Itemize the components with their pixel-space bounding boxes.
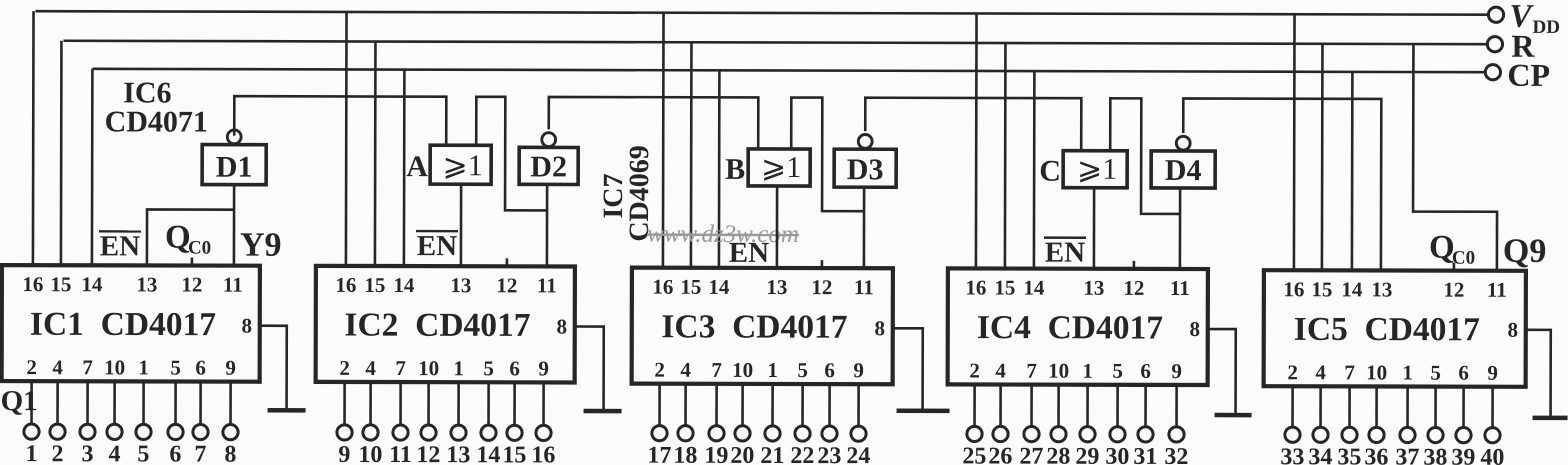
- bubble D1: [227, 130, 241, 144]
- wire IC1 pin8 to ground: [260, 326, 287, 411]
- wire gate B output to IC3 pin13: [776, 186, 779, 268]
- svg-text:⩾1: ⩾1: [761, 151, 801, 184]
- IC IC4 CD4017: [948, 268, 1208, 385]
- svg-text:10: 10: [358, 442, 382, 465]
- wire D3 bubble to gate C: [865, 98, 1081, 151]
- svg-text:IC2 CD4017: IC2 CD4017: [344, 307, 530, 344]
- svg-text:5: 5: [1430, 361, 1441, 385]
- svg-text:12: 12: [416, 442, 440, 465]
- wire VDD to IC4 pin16: [975, 13, 978, 268]
- labels IC3 terminal numbers: [647, 443, 870, 465]
- svg-text:16: 16: [22, 272, 43, 296]
- svg-text:16: 16: [965, 275, 986, 299]
- wire R to IC3 pin15: [690, 42, 693, 267]
- wire R rail to IC5 pin11: [1413, 44, 1498, 271]
- svg-text:13: 13: [1371, 277, 1392, 301]
- wire gate A output to IC2 pin13: [460, 184, 463, 266]
- svg-text:A: A: [406, 150, 428, 183]
- svg-text:1: 1: [138, 355, 149, 379]
- svg-text:C: C: [1039, 155, 1061, 188]
- svg-text:7: 7: [1026, 359, 1037, 383]
- wires IC5 outputs: [1293, 386, 1493, 427]
- wire gate B in2 to D3 output net: [791, 98, 864, 212]
- svg-text:13: 13: [446, 442, 470, 465]
- svg-text:CD4071: CD4071: [105, 105, 208, 138]
- wire IC3 pin12 stub: [821, 260, 824, 268]
- svg-text:15: 15: [364, 273, 385, 297]
- svg-text:14: 14: [708, 275, 730, 299]
- svg-text:14: 14: [1023, 276, 1045, 300]
- svg-text:19: 19: [704, 443, 728, 465]
- wire D1 output to IC1 pin11: [233, 185, 236, 266]
- svg-text:24: 24: [846, 443, 870, 465]
- inverter D1: [202, 145, 266, 185]
- wire D3 output to IC3 pin11: [863, 187, 866, 268]
- ground IC3: [897, 409, 950, 414]
- wire IC2 pin12 stub: [506, 258, 509, 266]
- svg-text:7: 7: [1344, 360, 1355, 384]
- svg-text:34: 34: [1308, 444, 1332, 465]
- ground IC2: [584, 409, 622, 414]
- labels IC5 terminal numbers: [1280, 444, 1504, 465]
- wire D2 output to IC2 pin11: [546, 184, 549, 266]
- wire R to IC5 pin15: [1321, 44, 1324, 270]
- terminals IC2 outputs: [337, 425, 551, 441]
- svg-text:1: 1: [25, 441, 37, 465]
- svg-text:4: 4: [365, 356, 376, 380]
- terminals IC1 outputs: [24, 424, 238, 440]
- svg-text:23: 23: [817, 443, 841, 465]
- svg-text:11: 11: [1170, 276, 1190, 300]
- svg-text:D1: D1: [216, 151, 253, 184]
- svg-text:11: 11: [1487, 278, 1507, 302]
- svg-text:32: 32: [1164, 444, 1188, 465]
- wire R to IC1 pin15: [60, 41, 63, 265]
- bubble D2: [542, 133, 556, 147]
- svg-text:4: 4: [1315, 360, 1326, 384]
- labels IC2 bottom pins: [339, 356, 549, 381]
- svg-text:6: 6: [169, 441, 181, 465]
- wire VDD to IC1 pin16: [32, 11, 35, 265]
- svg-text:⩾1: ⩾1: [1077, 153, 1117, 186]
- terminals IC3 outputs: [652, 426, 866, 442]
- svg-text:15: 15: [1311, 277, 1332, 301]
- svg-text:15: 15: [680, 275, 701, 299]
- svg-text:15: 15: [994, 276, 1015, 300]
- svg-text:8: 8: [1507, 318, 1518, 342]
- wire IC4 pin12 stub: [1133, 261, 1136, 269]
- svg-text:6: 6: [1140, 359, 1151, 383]
- svg-text:Q: Q: [165, 219, 191, 255]
- svg-text:39: 39: [1451, 445, 1475, 465]
- svg-text:D3: D3: [847, 153, 884, 186]
- terminal VDD: [1488, 7, 1503, 22]
- svg-text:5: 5: [137, 441, 149, 465]
- labels IC5 bottom pins: [1287, 360, 1498, 385]
- ground IC5: [1533, 416, 1568, 421]
- labels IC2 top pins: [335, 273, 556, 298]
- svg-text:4: 4: [680, 358, 691, 382]
- svg-text:C0: C0: [188, 238, 211, 259]
- svg-text:7: 7: [82, 355, 93, 379]
- svg-text:IC5 CD4017: IC5 CD4017: [1294, 311, 1480, 348]
- svg-text:14: 14: [81, 272, 103, 296]
- wire V_DD rail: [36, 11, 1488, 15]
- svg-text:3: 3: [81, 441, 93, 465]
- inverter D3: [834, 149, 896, 187]
- svg-text:1: 1: [1082, 359, 1093, 383]
- svg-text:10: 10: [1048, 359, 1069, 383]
- wire D1 bubble to gate A: [234, 96, 446, 145]
- bubble D4: [1176, 136, 1190, 150]
- svg-text:10: 10: [1366, 360, 1387, 384]
- ground IC1: [268, 408, 306, 413]
- svg-text:13: 13: [450, 273, 471, 297]
- svg-text:9: 9: [225, 356, 236, 380]
- wire CP to IC4 pin14: [1033, 71, 1036, 268]
- wire VDD to IC2 pin16: [345, 12, 348, 266]
- svg-text:9: 9: [338, 442, 350, 465]
- labels IC2 terminal numbers: [338, 442, 555, 465]
- svg-text:4: 4: [995, 359, 1006, 383]
- svg-text:D4: D4: [1165, 154, 1202, 187]
- svg-text:7: 7: [711, 358, 722, 382]
- svg-text:2: 2: [339, 356, 350, 380]
- svg-text:15: 15: [502, 442, 526, 465]
- labels IC4 bottom pins: [969, 358, 1182, 383]
- terminal CP: [1485, 65, 1500, 80]
- svg-text:IC1 CD4017: IC1 CD4017: [30, 306, 216, 343]
- wire IC1 pin12 stub: [191, 258, 194, 266]
- svg-text:10: 10: [418, 356, 439, 380]
- svg-text:29: 29: [1075, 444, 1099, 465]
- svg-text:Q1: Q1: [1, 385, 38, 417]
- terminals IC5 outputs: [1285, 427, 1500, 443]
- IC IC3 CD4017: [632, 268, 893, 385]
- svg-text:EN: EN: [1045, 237, 1085, 269]
- or-gate B: [748, 149, 810, 186]
- wire IC5 pin12 stub: [1453, 263, 1456, 271]
- wire IC5 pin8 to ground: [1526, 330, 1551, 418]
- wire D4 bubble to IC5 pin13: [1183, 98, 1381, 270]
- svg-text:4: 4: [52, 355, 63, 379]
- svg-text:15: 15: [50, 272, 71, 296]
- svg-text:9: 9: [1171, 359, 1182, 383]
- svg-text:33: 33: [1280, 444, 1304, 465]
- svg-text:8: 8: [1189, 317, 1200, 341]
- svg-text:Q: Q: [1429, 230, 1455, 266]
- svg-text:1: 1: [1402, 361, 1413, 385]
- svg-text:IC3 CD4017: IC3 CD4017: [661, 308, 847, 345]
- svg-text:12: 12: [496, 273, 517, 297]
- svg-text:20: 20: [730, 443, 754, 465]
- svg-text:11: 11: [537, 273, 557, 297]
- wire CP to IC1 pin14: [91, 69, 94, 265]
- IC IC2 CD4017: [316, 266, 575, 383]
- labels IC1 terminal numbers: [25, 441, 236, 465]
- wires IC4 outputs: [975, 384, 1177, 426]
- svg-text:5: 5: [170, 356, 181, 380]
- labels IC3 top pins: [652, 275, 873, 300]
- terminal R: [1487, 37, 1502, 52]
- svg-text:28: 28: [1046, 444, 1070, 465]
- svg-text:6: 6: [509, 356, 520, 380]
- svg-text:10: 10: [104, 355, 125, 379]
- svg-text:14: 14: [393, 273, 415, 297]
- svg-text:21: 21: [760, 443, 784, 465]
- wire R to IC2 pin15: [374, 42, 377, 266]
- or-gate A: [430, 145, 491, 184]
- wire R to IC4 pin15: [1004, 43, 1007, 268]
- or-gate C: [1063, 151, 1127, 188]
- svg-text:1: 1: [453, 356, 464, 380]
- IC IC5 CD4017: [1264, 270, 1526, 387]
- wires IC1 outputs: [32, 381, 231, 424]
- wire CP to IC2 pin14: [403, 70, 406, 266]
- svg-text:2: 2: [1287, 360, 1298, 384]
- svg-text:8: 8: [556, 314, 567, 338]
- svg-text:9: 9: [538, 356, 549, 380]
- svg-text:16: 16: [335, 273, 356, 297]
- svg-text:25: 25: [962, 443, 986, 465]
- svg-text:4: 4: [108, 441, 120, 465]
- svg-text:1: 1: [767, 358, 778, 382]
- svg-text:16: 16: [1283, 277, 1304, 301]
- svg-text:37: 37: [1395, 444, 1419, 465]
- wire CP rail: [92, 69, 1485, 72]
- svg-text:6: 6: [824, 358, 835, 382]
- svg-text:27: 27: [1019, 444, 1043, 465]
- svg-text:EN: EN: [417, 230, 457, 262]
- labels IC1 bottom pins: [26, 355, 236, 380]
- svg-text:40: 40: [1480, 445, 1504, 465]
- labels IC3 bottom pins: [654, 358, 864, 383]
- svg-text:7: 7: [395, 356, 406, 380]
- wire gate C output to IC4 pin13: [1093, 188, 1096, 269]
- inverter D4: [1151, 151, 1215, 188]
- svg-text:6: 6: [195, 356, 206, 380]
- svg-text:8: 8: [874, 316, 885, 340]
- svg-text:16: 16: [531, 442, 555, 465]
- svg-text:2: 2: [51, 441, 63, 465]
- svg-text:16: 16: [652, 275, 673, 299]
- svg-text:11: 11: [854, 275, 874, 299]
- svg-text:11: 11: [389, 442, 412, 465]
- svg-text:C0: C0: [1452, 248, 1475, 269]
- svg-text:B: B: [725, 153, 745, 186]
- svg-text:14: 14: [1341, 277, 1363, 301]
- labels IC5 top pins: [1283, 277, 1506, 302]
- svg-text:12: 12: [811, 275, 832, 299]
- wire gate C in2 to D4 output net: [1110, 98, 1180, 214]
- wires IC3 outputs: [660, 384, 859, 426]
- wire CP to IC3 pin14: [718, 70, 721, 267]
- wire D2 bubble to gate B: [549, 97, 759, 149]
- svg-text:13: 13: [136, 272, 157, 296]
- wire IC3 pin8 to ground: [893, 328, 923, 411]
- svg-text:IC4 CD4017: IC4 CD4017: [977, 309, 1163, 346]
- wire CP to IC5 pin14: [1351, 72, 1354, 270]
- labels IC1 top pins: [22, 272, 242, 297]
- svg-text:22: 22: [790, 443, 814, 465]
- svg-text:EN: EN: [100, 230, 140, 262]
- terminals IC4 outputs: [967, 426, 1184, 442]
- wire IC4 pin8 to ground: [1208, 329, 1236, 415]
- svg-text:5: 5: [797, 358, 808, 382]
- ground IC4: [1215, 413, 1252, 418]
- svg-text:12: 12: [1123, 276, 1144, 300]
- svg-text:14: 14: [476, 442, 500, 465]
- svg-text:5: 5: [1112, 359, 1123, 383]
- svg-text:CP: CP: [1507, 57, 1550, 93]
- wire VDD to IC5 pin16: [1293, 14, 1296, 270]
- wire gate A in2 to D2 output net: [476, 97, 547, 211]
- svg-text:13: 13: [1083, 276, 1104, 300]
- svg-text:8: 8: [224, 442, 236, 465]
- svg-text:31: 31: [1133, 444, 1157, 465]
- wire R rail: [63, 41, 1486, 44]
- svg-text:5: 5: [483, 356, 494, 380]
- inverter D2: [519, 147, 578, 184]
- svg-text:36: 36: [1364, 444, 1388, 465]
- svg-text:12: 12: [181, 273, 202, 297]
- labels IC4 top pins: [965, 275, 1189, 300]
- svg-text:2: 2: [969, 358, 980, 382]
- svg-text:7: 7: [194, 442, 206, 465]
- labels IC4 terminal numbers: [962, 443, 1188, 465]
- svg-text:18: 18: [673, 443, 697, 465]
- svg-text:6: 6: [1458, 361, 1469, 385]
- IC IC1 CD4017: [2, 265, 260, 382]
- wire VDD to IC3 pin16: [662, 13, 665, 268]
- svg-text:Y9: Y9: [240, 227, 282, 264]
- svg-text:38: 38: [1423, 445, 1447, 465]
- svg-text:13: 13: [766, 275, 787, 299]
- svg-text:⩾1: ⩾1: [443, 149, 483, 182]
- svg-text:8: 8: [241, 314, 252, 338]
- wire D1 output branch to IC1 pin13: [147, 209, 234, 265]
- wires IC2 outputs: [345, 382, 544, 425]
- svg-text:30: 30: [1105, 444, 1129, 465]
- svg-text:11: 11: [223, 273, 243, 297]
- wire D4 output to IC4 pin11: [1179, 188, 1182, 269]
- svg-text:Q9: Q9: [1503, 233, 1547, 270]
- svg-text:D2: D2: [530, 150, 567, 183]
- wire IC2 pin8 to ground: [575, 326, 604, 411]
- svg-text:2: 2: [654, 358, 665, 382]
- bubble D3: [858, 134, 872, 148]
- svg-text:9: 9: [1487, 361, 1498, 385]
- svg-text:17: 17: [647, 443, 671, 465]
- svg-text:26: 26: [988, 444, 1012, 465]
- svg-text:12: 12: [1443, 278, 1464, 302]
- svg-text:9: 9: [853, 358, 864, 382]
- svg-text:35: 35: [1337, 444, 1361, 465]
- svg-text:2: 2: [26, 355, 37, 379]
- svg-text:10: 10: [732, 358, 753, 382]
- svg-text:DD: DD: [1532, 17, 1560, 38]
